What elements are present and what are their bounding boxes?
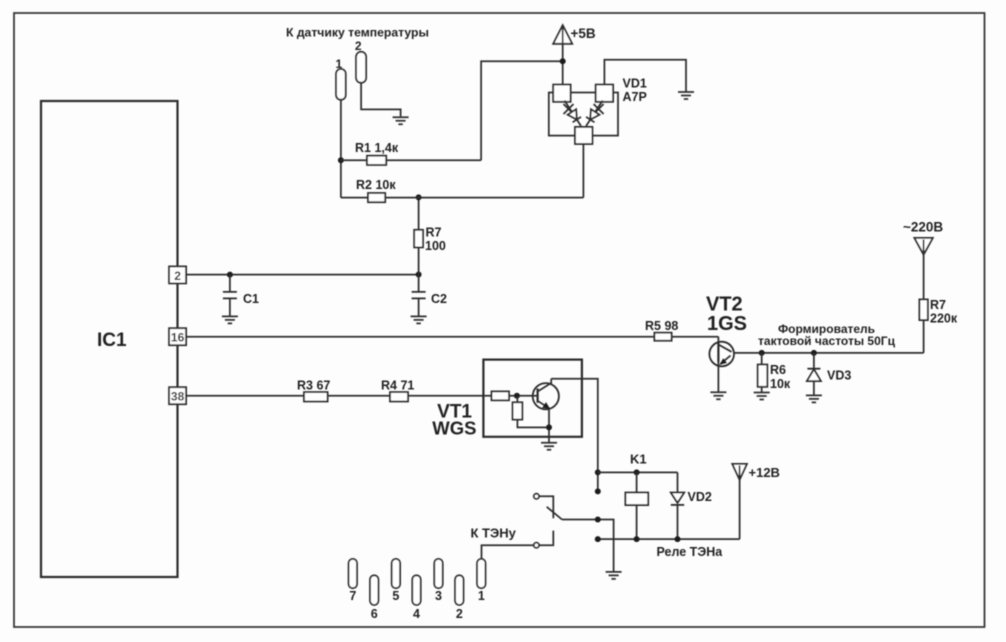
wire lower contact to pin 1 (482, 545, 534, 559)
node pin1-R1 junction (338, 157, 344, 163)
svg-text:+12В: +12В (749, 465, 780, 480)
connector pin 4 (412, 575, 420, 621)
node R2-R7 junction (416, 194, 422, 200)
node R6 junction (759, 350, 765, 356)
power ~220В symbol (903, 219, 943, 299)
capacitor C2 (412, 275, 447, 316)
connector pin 2 (bottom) (455, 575, 463, 621)
svg-text:7: 7 (349, 589, 356, 603)
connector pin 7 (349, 559, 357, 603)
resistor R4 71 (381, 379, 492, 402)
svg-text:2: 2 (174, 269, 181, 283)
resistor R5 98 (645, 319, 718, 341)
node +5V junction (560, 58, 566, 64)
wire VD1 bottom to R2 line (582, 144, 584, 198)
ground R6 (754, 393, 770, 400)
node VD3 junction (811, 350, 817, 356)
node bottom bus left end (595, 536, 601, 542)
resistor R6 10к (758, 353, 791, 392)
ground C1 (222, 316, 238, 323)
svg-text:1GS: 1GS (707, 313, 747, 335)
svg-text:5: 5 (392, 589, 399, 603)
wire temp pin1 down (340, 100, 342, 198)
svg-text:тактовой частоты 50Гц: тактовой частоты 50Гц (758, 334, 896, 348)
ground C2 (411, 316, 427, 323)
ground VT1 (541, 443, 557, 450)
svg-text:R4 71: R4 71 (381, 379, 414, 393)
svg-text:C1: C1 (243, 292, 259, 306)
svg-text:220к: 220к (930, 312, 958, 326)
capacitor C1 (223, 275, 259, 316)
svg-text:R3 67: R3 67 (297, 379, 330, 393)
wire R1 riser to +5V rail (481, 61, 563, 160)
svg-text:R7: R7 (930, 298, 946, 312)
wire switch common (562, 520, 614, 572)
svg-text:VD1: VD1 (623, 77, 647, 91)
power +5В symbol (553, 25, 596, 84)
svg-text:6: 6 (371, 607, 378, 621)
svg-text:Реле ТЭНа: Реле ТЭНа (657, 545, 724, 559)
node VD2 bottom junction (675, 536, 681, 542)
node switch common junction (595, 517, 601, 523)
svg-text:C2: C2 (431, 292, 447, 306)
connector pin 6 (370, 575, 378, 621)
svg-text:2: 2 (355, 39, 362, 53)
svg-text:10к: 10к (770, 377, 791, 391)
pin 2 (169, 266, 186, 283)
ground VD1 right (678, 92, 694, 99)
wire pin16 bus (186, 336, 654, 338)
svg-text:VD3: VD3 (827, 368, 851, 382)
svg-text:А7Р: А7Р (623, 90, 647, 104)
zener diode VD3 (807, 353, 851, 395)
node K1 top junction (634, 469, 640, 475)
svg-text:R5 98: R5 98 (645, 319, 678, 333)
ground VT2 (710, 392, 726, 399)
switch blade (547, 507, 562, 520)
diode VD2 (671, 472, 712, 539)
svg-text:R1 1,4к: R1 1,4к (355, 141, 399, 155)
node K1 bottom junction (634, 536, 640, 542)
svg-text:3: 3 (435, 589, 442, 603)
ground VD3 (806, 395, 822, 402)
pin 16 (169, 328, 186, 345)
svg-text:K1: K1 (630, 452, 647, 467)
node pin2-C1 junction (227, 272, 233, 278)
svg-text:К датчику температуры: К датчику температуры (286, 26, 429, 40)
wire relay top bus (598, 471, 678, 473)
diode assembly VD1 А7Р (549, 77, 647, 145)
power +12В symbol (732, 464, 780, 539)
svg-text:WGS: WGS (432, 417, 476, 438)
ground switch (606, 572, 622, 579)
resistor R3 67 (297, 379, 390, 402)
svg-text:К ТЭНу: К ТЭНу (471, 525, 517, 540)
resistor R1 1,4к (341, 141, 481, 165)
wire pin2 bus (186, 274, 419, 276)
wire VT1 collector (551, 379, 598, 492)
ground temp pin2 (393, 117, 409, 124)
wire pin38 bus (186, 395, 304, 397)
svg-text:R6: R6 (770, 363, 786, 377)
svg-text:VD2: VD2 (688, 490, 712, 504)
node pin2-C2-R7 junction (416, 272, 422, 278)
connector pin 5 (392, 559, 400, 603)
pin 38 (169, 387, 186, 404)
svg-text:+5В: +5В (571, 26, 596, 41)
transistor VT2 1GS (706, 294, 747, 392)
svg-text:IC1: IC1 (97, 330, 127, 351)
resistor R7 (100) (414, 197, 446, 274)
connector pin 2 (temp sensor) (355, 39, 366, 83)
svg-text:~220В: ~220В (903, 219, 943, 234)
connector pin 3 (434, 559, 442, 603)
switch SA1 lower contact (534, 531, 553, 548)
relay coil K1 (625, 452, 648, 540)
svg-text:4: 4 (413, 607, 420, 621)
svg-text:2: 2 (456, 607, 463, 621)
switch SA1 upper contact (534, 494, 553, 519)
transistor VT1 WGS assembly (432, 360, 582, 443)
svg-text:100: 100 (425, 239, 446, 253)
svg-text:R2 10к: R2 10к (356, 178, 396, 192)
svg-text:38: 38 (171, 390, 185, 404)
wire relay bottom bus (598, 538, 740, 540)
svg-text:16: 16 (171, 331, 185, 345)
wire VD1 top-right to ground (604, 60, 686, 92)
IC U1 box IC1 (41, 101, 178, 577)
wire temp pin2 to ground (361, 83, 401, 117)
node collector/relay top junction (595, 469, 601, 475)
resistor R7 220к (919, 298, 957, 353)
connector pin 1 (bottom) (477, 559, 485, 603)
svg-text:1: 1 (478, 589, 485, 603)
resistor R2 10к (341, 178, 584, 202)
svg-text:R7: R7 (426, 226, 442, 240)
wire VT2 collector bus (734, 352, 924, 354)
connector pin 1 (temp sensor) (335, 57, 345, 100)
node relay contact upper (595, 488, 601, 494)
